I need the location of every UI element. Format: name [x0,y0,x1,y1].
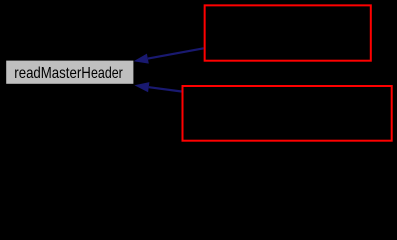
svg-text:readMasterH: readMasterH [14,65,91,82]
svg-text:eader: eader [91,65,123,82]
